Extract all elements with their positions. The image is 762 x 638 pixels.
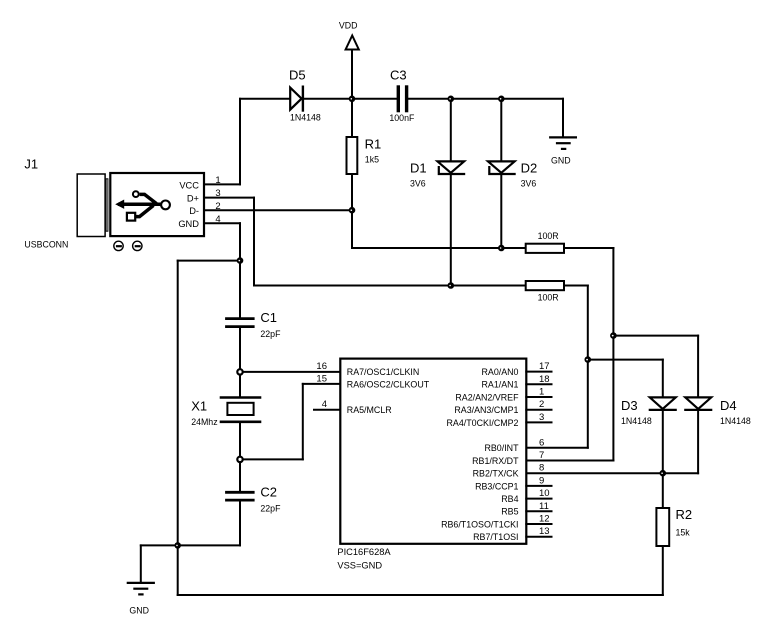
svg-text:13: 13 xyxy=(539,526,550,537)
wire top rail into D5 anode xyxy=(240,98,291,100)
svg-text:C2: C2 xyxy=(260,484,277,499)
capacitor C1 xyxy=(227,319,254,327)
svg-text:USBCONN: USBCONN xyxy=(24,239,68,249)
svg-text:12: 12 xyxy=(539,514,550,525)
svg-text:RA2/AN2/VREF: RA2/AN2/VREF xyxy=(455,392,519,402)
svg-text:18: 18 xyxy=(539,374,550,385)
wire TXD row to 100R xyxy=(254,285,526,287)
svg-text:RA4/T0CKI/CMP2: RA4/T0CKI/CMP2 xyxy=(446,418,518,428)
node D2/RXD xyxy=(498,245,505,252)
node OSC1 open xyxy=(237,369,242,374)
node VDD rail xyxy=(349,96,356,103)
svg-text:VCC: VCC xyxy=(179,180,199,190)
svg-text:D+: D+ xyxy=(187,194,199,204)
wire node down to C2 xyxy=(239,459,241,492)
svg-text:J1: J1 xyxy=(24,157,38,172)
wire D+ pin3 xyxy=(204,197,254,199)
wire node to D4 column xyxy=(613,335,698,337)
node usb gnd xyxy=(237,257,244,264)
crystal X1 xyxy=(221,398,260,422)
svg-text:22pF: 22pF xyxy=(260,503,281,513)
node OSC2 open xyxy=(237,457,242,462)
svg-text:D-: D- xyxy=(189,206,199,216)
wire pin7 RB1 xyxy=(526,460,613,462)
ground (bottom left) xyxy=(128,583,154,595)
svg-text:15: 15 xyxy=(316,374,327,385)
svg-text:RB1/RX/DT: RB1/RX/DT xyxy=(472,456,519,466)
svg-text:100R: 100R xyxy=(538,231,559,241)
IC left pin labels xyxy=(347,367,430,415)
svg-text:2: 2 xyxy=(539,399,544,410)
svg-text:7: 7 xyxy=(539,450,544,461)
wire VCC pin1 to vertical xyxy=(204,183,240,185)
VDD symbol xyxy=(346,36,359,99)
wire D2 cathode to RXD row xyxy=(500,174,502,248)
connector pin names xyxy=(178,180,199,229)
wire node2 to D3 column xyxy=(588,359,663,361)
wire 100R to corner xyxy=(564,247,613,249)
node R1/D- xyxy=(349,207,356,214)
wire node to left vertical xyxy=(178,260,240,262)
node R2/RB2 xyxy=(660,470,667,477)
svg-text:1: 1 xyxy=(215,175,220,186)
wire down to node xyxy=(612,248,614,336)
svg-text:10: 10 xyxy=(539,488,550,499)
node D1 top xyxy=(448,96,455,103)
wire OSC2 node right xyxy=(240,458,303,460)
IC U1 PIC16F628A body xyxy=(340,359,526,544)
svg-text:RB3/CCP1: RB3/CCP1 xyxy=(475,481,518,491)
wire down to top GND xyxy=(562,99,564,137)
svg-text:RA0/AN0: RA0/AN0 xyxy=(482,367,519,377)
svg-text:RA5/MCLR: RA5/MCLR xyxy=(347,405,392,415)
wire pin8 RB2 row xyxy=(526,472,698,474)
svg-text:RB7/T1OSI: RB7/T1OSI xyxy=(473,532,518,542)
svg-text:D2: D2 xyxy=(521,160,538,175)
svg-text:3: 3 xyxy=(215,188,220,199)
svg-text:C1: C1 xyxy=(260,310,277,325)
svg-text:11: 11 xyxy=(539,501,549,512)
svg-text:VSS=GND: VSS=GND xyxy=(337,561,382,571)
wire node2 down to pin6 row xyxy=(587,360,589,448)
svg-text:RB2/TX/CK: RB2/TX/CK xyxy=(473,469,519,479)
svg-text:RA7/OSC1/CLKIN: RA7/OSC1/CLKIN xyxy=(347,367,420,377)
IC left pin numbers xyxy=(316,361,327,410)
wire D+ vertical xyxy=(253,198,255,286)
resistor R2 xyxy=(656,508,669,546)
svg-text:15k: 15k xyxy=(676,528,691,538)
junction node dots xyxy=(174,96,666,549)
svg-text:C3: C3 xyxy=(390,68,407,83)
wire pin4 MCLR stub xyxy=(314,409,340,411)
svg-text:8: 8 xyxy=(539,463,544,474)
svg-text:D4: D4 xyxy=(720,398,737,413)
wire D1 cathode to TXD row xyxy=(450,174,452,286)
svg-text:RA1/AN1: RA1/AN1 xyxy=(482,380,519,390)
zener D2 xyxy=(488,161,515,174)
wire OSC2 vertical xyxy=(302,384,304,460)
zener D1 xyxy=(438,161,465,174)
diode D5 xyxy=(290,87,303,111)
wire pin6 RB0 xyxy=(526,447,588,449)
svg-text:1: 1 xyxy=(539,387,544,398)
resistor R1 xyxy=(347,137,358,174)
IC right pin stubs xyxy=(526,372,551,537)
svg-text:GND: GND xyxy=(178,219,199,229)
wire D4 cathode down xyxy=(697,410,699,473)
USB trident icon xyxy=(115,191,170,220)
wire D1 anode xyxy=(450,99,452,161)
svg-text:GND: GND xyxy=(551,156,571,166)
svg-text:16: 16 xyxy=(316,361,327,372)
wire node down to C1 xyxy=(239,261,241,319)
capacitor C3 xyxy=(398,87,406,111)
svg-text:22pF: 22pF xyxy=(260,329,281,339)
svg-text:2: 2 xyxy=(215,201,220,212)
wire R2 bottom xyxy=(662,546,664,595)
wire left vertical xyxy=(177,261,179,595)
wire C1 to OSC1 node xyxy=(239,327,241,372)
svg-text:1N4148: 1N4148 xyxy=(621,416,652,426)
svg-text:100R: 100R xyxy=(538,292,559,302)
svg-text:RA6/OSC2/CLKOUT: RA6/OSC2/CLKOUT xyxy=(347,380,430,390)
svg-text:D1: D1 xyxy=(410,160,427,175)
wire down to node2 xyxy=(587,286,589,360)
wire node down to pin7 row xyxy=(612,336,614,461)
capacitor C2 xyxy=(227,492,254,500)
svg-text:X1: X1 xyxy=(191,399,207,414)
wire bottom rail xyxy=(178,594,663,596)
node RB1 branch xyxy=(610,332,617,339)
wire X1 bottom to OSC2 node xyxy=(239,422,241,460)
svg-text:RA3/AN3/CMP1: RA3/AN3/CMP1 xyxy=(454,405,518,415)
wire pin15 RA6 xyxy=(303,383,341,385)
ground (top right) xyxy=(550,137,576,149)
node left gnd xyxy=(174,542,181,549)
wire GND pin4 xyxy=(204,222,240,224)
wire C2 bottom down xyxy=(239,500,241,545)
wire down to GND symbol xyxy=(140,545,142,582)
resistor 100R (lower) xyxy=(526,281,564,290)
wire D3 cathode down xyxy=(662,410,664,473)
wire D- pin2 to R1 node xyxy=(204,209,352,211)
svg-text:RB0/INT: RB0/INT xyxy=(484,443,519,453)
wire R1 top xyxy=(351,99,353,137)
wire net RXD row to 100R xyxy=(352,247,526,249)
IC right pin labels xyxy=(441,367,519,542)
svg-text:VDD: VDD xyxy=(339,20,358,30)
wire vertical up to top rail xyxy=(239,99,241,185)
wire down to X1 xyxy=(239,372,241,398)
svg-text:D5: D5 xyxy=(289,68,306,83)
IC right pin numbers xyxy=(539,361,550,537)
svg-text:RB5: RB5 xyxy=(501,507,518,517)
wire 100R lower to corner xyxy=(564,285,588,287)
node RB0 branch xyxy=(585,356,592,363)
svg-text:100nF: 100nF xyxy=(389,113,415,123)
svg-text:1k5: 1k5 xyxy=(365,155,379,165)
svg-text:3: 3 xyxy=(539,412,544,423)
svg-text:17: 17 xyxy=(539,361,550,372)
wire D3 anode xyxy=(662,360,664,398)
resistor 100R (upper) xyxy=(526,244,564,253)
wire R1 bottom through D- node down xyxy=(351,174,353,248)
svg-text:R1: R1 xyxy=(365,137,382,152)
svg-text:3V6: 3V6 xyxy=(410,179,426,189)
svg-text:9: 9 xyxy=(539,475,544,486)
node D1/TXD xyxy=(448,282,455,289)
connector J1 USB xyxy=(77,173,204,237)
svg-text:GND: GND xyxy=(129,605,149,615)
svg-text:RB6/T1OSO/T1CKI: RB6/T1OSO/T1CKI xyxy=(441,519,518,529)
svg-text:D3: D3 xyxy=(621,398,638,413)
svg-text:24Mhz: 24Mhz xyxy=(191,417,217,427)
node D2 top xyxy=(498,96,505,103)
wire pin16 RA7 xyxy=(240,371,340,373)
connector pin numbers xyxy=(215,175,220,225)
diode D3 xyxy=(650,397,676,410)
svg-text:1N4148: 1N4148 xyxy=(290,113,321,123)
svg-text:6: 6 xyxy=(539,437,544,448)
polarity marks xyxy=(114,241,142,250)
diode D4 xyxy=(685,397,711,410)
svg-text:R2: R2 xyxy=(676,507,693,522)
svg-text:4: 4 xyxy=(215,214,220,225)
wire D2 anode xyxy=(500,99,502,161)
svg-text:RB4: RB4 xyxy=(501,494,518,504)
wire gnd row bottom left xyxy=(141,544,240,546)
svg-text:PIC16F628A: PIC16F628A xyxy=(337,547,391,557)
svg-text:1N4148: 1N4148 xyxy=(720,416,751,426)
wire R2 top xyxy=(662,473,664,508)
wire pin4 vertical xyxy=(239,223,241,260)
wire D4 anode xyxy=(697,336,699,398)
wire C3 to gnd corner xyxy=(408,98,563,100)
svg-text:4: 4 xyxy=(322,399,327,410)
svg-text:3V6: 3V6 xyxy=(521,179,537,189)
wire D5 cathode to VDD node xyxy=(303,98,397,100)
